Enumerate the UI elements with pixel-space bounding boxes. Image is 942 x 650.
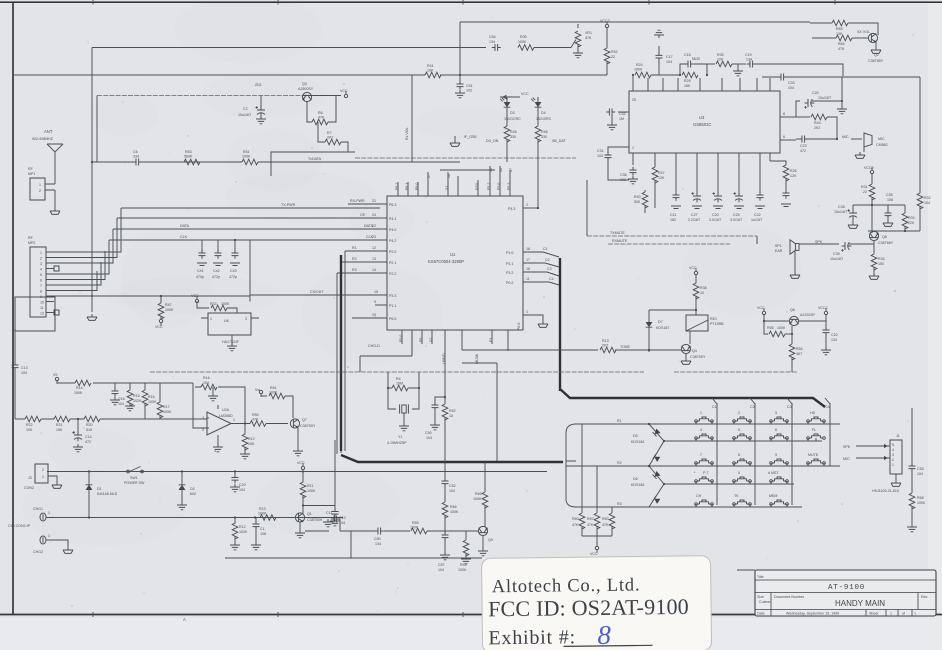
svg-text:134: 134 <box>489 40 495 44</box>
svg-text:104: 104 <box>449 489 455 493</box>
svg-text:100K: 100K <box>634 68 643 72</box>
VCC node keypad <box>595 546 598 552</box>
svg-text:Vw: Vw <box>255 388 260 392</box>
svg-text:1: 1 <box>39 183 41 187</box>
svg-text:P6.1: P6.1 <box>405 183 409 190</box>
svg-text:D7: D7 <box>658 320 663 324</box>
svg-text:R63: R63 <box>836 27 843 31</box>
svg-text:6: 6 <box>775 428 777 432</box>
svg-text:C3875SY: C3875SY <box>690 355 706 359</box>
VCC node right of Q3 <box>344 91 347 97</box>
svg-text:560K: 560K <box>184 155 193 159</box>
resistor R20 <box>84 416 100 422</box>
capacitor C53 right <box>911 408 913 466</box>
svg-text:R13: R13 <box>602 339 609 343</box>
potentiometer VR1 <box>575 31 581 47</box>
svg-text:C4: C4 <box>549 277 554 281</box>
svg-text:C50: C50 <box>374 537 381 541</box>
svg-text:C19: C19 <box>745 53 752 57</box>
svg-text:C1: C1 <box>712 405 717 409</box>
svg-text:2.2/16T: 2.2/16T <box>688 218 701 222</box>
svg-text:4: 4 <box>892 448 894 452</box>
wire bus CE y218 <box>117 217 380 219</box>
svg-text:51K: 51K <box>86 428 93 432</box>
svg-text:2: 2 <box>39 189 41 193</box>
wire bus CLK y240 <box>109 239 380 241</box>
svg-text:50K: 50K <box>634 200 641 204</box>
resistor R26 <box>770 161 786 165</box>
svg-text:Rev: Rev <box>921 595 928 599</box>
sheet frame bottom ruler line <box>0 614 942 616</box>
svg-text:C22: C22 <box>831 333 838 337</box>
svg-text:EAR: EAR <box>775 249 783 253</box>
svg-text:100K: 100K <box>458 568 467 572</box>
svg-text:V9: V9 <box>53 373 57 377</box>
svg-text:R16: R16 <box>148 395 155 399</box>
key MST <box>770 477 789 482</box>
svg-text:VCC: VCC <box>191 294 199 298</box>
svg-text:2: 2 <box>526 203 528 207</box>
wire row y158 <box>355 157 576 159</box>
svg-text:RF: RF <box>28 167 34 171</box>
U1 left pin 22 P4.0 <box>380 228 387 230</box>
svg-text:MUTE: MUTE <box>808 453 819 457</box>
svg-text:47K: 47K <box>585 36 592 40</box>
svg-text:100K: 100K <box>518 40 527 44</box>
keypad row R1 <box>576 423 840 425</box>
key 2 <box>733 417 752 422</box>
LED D3 <box>506 97 508 100</box>
capacitor C22 <box>759 165 761 193</box>
svg-text:P6.3: P6.3 <box>389 203 396 207</box>
resistor R7 <box>318 122 348 152</box>
svg-text:VCC: VCC <box>590 552 598 556</box>
svg-text:ZD1: ZD1 <box>255 83 262 87</box>
svg-text:C2: C2 <box>545 258 550 262</box>
wire row y205 <box>853 204 905 206</box>
svg-text:P6.5: P6.5 <box>389 317 396 321</box>
svg-text:C2: C2 <box>750 405 755 409</box>
svg-text:CH: CH <box>696 494 702 498</box>
resistor R46 <box>537 107 539 126</box>
svg-text:P0.0: P0.0 <box>399 335 403 342</box>
node junction x633 y75 <box>632 74 634 76</box>
svg-text:R68: R68 <box>917 496 924 500</box>
svg-text:TX-PWR: TX-PWR <box>281 203 296 207</box>
svg-text:D3: D3 <box>510 111 515 115</box>
svg-text:P5.2: P5.2 <box>487 183 491 190</box>
node junction x182 <box>181 470 183 472</box>
connector CHG1 <box>40 513 46 521</box>
transistor Q4 <box>681 344 690 353</box>
svg-text:POWER SW: POWER SW <box>124 481 145 485</box>
key 8 <box>733 459 752 464</box>
svg-text:KDS184: KDS184 <box>631 483 644 487</box>
svg-text:Q7: Q7 <box>302 418 307 422</box>
svg-text:R54: R54 <box>796 347 803 351</box>
U1 left pin 12 P2.0 R1 <box>345 250 387 252</box>
svg-text:C50: C50 <box>425 431 432 435</box>
svg-text:37: 37 <box>509 168 513 172</box>
capacitor C38 <box>852 205 854 211</box>
svg-text:5: 5 <box>892 443 894 447</box>
svg-text:C32: C32 <box>619 112 626 116</box>
svg-text:C42: C42 <box>213 269 220 273</box>
svg-text:SB_DAT: SB_DAT <box>552 139 567 143</box>
exhibit underline <box>564 645 653 646</box>
U1 right pin 11 P0.2 C4 <box>523 281 549 283</box>
keypad row R3 <box>576 506 802 508</box>
svg-text:10: 10 <box>700 291 704 295</box>
svg-text:D2: D2 <box>190 487 195 491</box>
resistor R15 <box>129 383 131 390</box>
svg-text:7: 7 <box>700 453 702 457</box>
svg-text:R6: R6 <box>318 111 323 115</box>
svg-text:R4: R4 <box>396 377 401 381</box>
ground under U6 <box>227 343 237 351</box>
svg-text:RX-PWR: RX-PWR <box>350 199 365 203</box>
svg-text:C3: C3 <box>547 267 552 271</box>
title block top border extension <box>737 569 755 571</box>
svg-text:Custom: Custom <box>759 600 771 604</box>
resistor R63t <box>810 22 832 24</box>
svg-text:9: 9 <box>374 300 376 304</box>
key FL <box>807 434 826 439</box>
svg-text:1: 1 <box>526 310 528 314</box>
svg-text:P6.2: P6.2 <box>395 183 399 190</box>
svg-text:CHG-D: CHG-D <box>368 344 380 348</box>
svg-text:P1: P1 <box>489 338 493 342</box>
capacitor C39 <box>841 242 851 252</box>
svg-text:C38T85Y: C38T85Y <box>868 59 884 63</box>
svg-text:P2.2: P2.2 <box>389 272 396 276</box>
U1 left pin 21 P6.3 RX-PWR <box>348 203 387 205</box>
svg-text:A1S025Y: A1S025Y <box>800 313 816 317</box>
svg-text:C33: C33 <box>788 81 795 85</box>
svg-text:14: 14 <box>372 268 376 272</box>
svg-text:104: 104 <box>239 488 245 492</box>
svg-text:R29: R29 <box>684 79 691 83</box>
crystal Y1 <box>388 388 419 409</box>
svg-text:DX_ON: DX_ON <box>486 139 499 143</box>
resistor R53 <box>184 159 200 165</box>
svg-text:100K: 100K <box>242 155 251 159</box>
svg-text:R27: R27 <box>658 171 665 175</box>
svg-text:R57: R57 <box>587 517 594 521</box>
svg-text:CHG2: CHG2 <box>33 550 43 554</box>
wire from frame y330 <box>13 329 15 331</box>
svg-text:R33: R33 <box>210 302 217 306</box>
svg-text:C1: C1 <box>260 527 265 531</box>
svg-text:Q3: Q3 <box>302 82 307 86</box>
svg-text:HD: HD <box>810 411 816 415</box>
key 0 <box>733 477 752 482</box>
svg-text:C17: C17 <box>666 55 673 59</box>
svg-text:47K: 47K <box>602 523 609 527</box>
svg-text:R55: R55 <box>412 521 419 525</box>
resistor R40 <box>644 190 646 192</box>
keypad column C3 <box>791 403 793 505</box>
capacitor C10 <box>334 440 336 512</box>
svg-text:902-928MHZ: 902-928MHZ <box>32 137 54 141</box>
U1 bottom pin stubs <box>402 330 508 356</box>
resistor R22 <box>25 416 41 422</box>
svg-text:10M: 10M <box>396 382 403 386</box>
svg-text:of: of <box>902 612 905 616</box>
title block column lines <box>771 593 918 617</box>
svg-text:27: 27 <box>427 174 431 178</box>
wire row y170 <box>440 169 495 171</box>
svg-text:MEM: MEM <box>769 494 777 498</box>
svg-text:C3: C3 <box>787 405 792 409</box>
svg-text:470p: 470p <box>196 275 204 279</box>
svg-text:104: 104 <box>438 568 444 572</box>
svg-text:4K7: 4K7 <box>796 352 802 356</box>
svg-text:GS8501C: GS8501C <box>693 122 711 127</box>
svg-text:P6.0: P6.0 <box>415 183 419 190</box>
svg-text:150: 150 <box>878 262 884 266</box>
svg-text:1: 1 <box>890 612 892 616</box>
resistor R65 <box>484 462 486 492</box>
key TK <box>733 500 752 505</box>
resistor R31 <box>871 173 873 184</box>
svg-text:P4.1: P4.1 <box>389 217 396 221</box>
wire TONE to Q4 base <box>662 349 681 351</box>
wire mute row RXMUTE <box>608 243 730 245</box>
svg-text:10K: 10K <box>26 428 33 432</box>
svg-text:104: 104 <box>21 371 27 375</box>
capacitor C31 <box>608 147 629 155</box>
svg-text:C11: C11 <box>670 213 676 217</box>
op-amp U6 box <box>208 313 251 335</box>
wire MP2 pin12 stub <box>46 312 54 314</box>
svg-text:C29: C29 <box>239 483 246 487</box>
U3 right pin 8 <box>780 116 796 118</box>
svg-text:102K: 102K <box>133 399 142 403</box>
svg-text:5630: 5630 <box>692 57 700 61</box>
svg-text:4: 4 <box>40 268 42 272</box>
U1 right pin 1 ground <box>523 315 543 321</box>
VCC2 node cap <box>824 308 827 314</box>
resistor R11 <box>302 472 304 483</box>
svg-text:C41: C41 <box>197 269 204 273</box>
capacitor C50b <box>375 528 384 535</box>
svg-text:11: 11 <box>526 277 530 281</box>
U1 left pin 14 P2.2 R3 <box>337 272 387 274</box>
keypad row R2 <box>576 465 840 467</box>
svg-text:C14: C14 <box>85 435 92 439</box>
svg-text:C35: C35 <box>886 193 893 197</box>
svg-text:2K2: 2K2 <box>327 136 333 140</box>
connector J1 <box>890 440 902 474</box>
diode D2 zener <box>181 472 183 488</box>
keypad mid row2 <box>664 483 794 485</box>
VCC node Q6 <box>762 308 765 314</box>
svg-text:D4: D4 <box>541 111 546 115</box>
svg-text:HANDY MAIN: HANDY MAIN <box>835 599 885 608</box>
wire row y383 <box>57 382 193 384</box>
transistor Q1 <box>295 513 304 522</box>
svg-text:R33: R33 <box>908 216 915 220</box>
ground at J3 pin1 <box>48 476 57 482</box>
sheet frame bottom ticks <box>93 612 649 617</box>
svg-text:P4.3: P4.3 <box>508 207 515 211</box>
U1 top pin stubs <box>398 166 510 196</box>
svg-text:10u/16T: 10u/16T <box>238 113 252 117</box>
capacitor bypass near opamp <box>212 387 214 393</box>
sheet frame left border <box>12 2 14 614</box>
capacitor C51 <box>457 81 464 90</box>
svg-text:5: 5 <box>40 273 42 277</box>
svg-text:23: 23 <box>372 235 376 239</box>
svg-text:RE1: RE1 <box>710 317 717 321</box>
svg-text:C54: C54 <box>489 35 496 39</box>
svg-text:29: 29 <box>372 313 376 317</box>
svg-text:VCC: VCC <box>297 461 305 465</box>
svg-text:22: 22 <box>863 190 867 194</box>
svg-text:100K: 100K <box>777 326 786 330</box>
svg-text:C22: C22 <box>754 213 761 217</box>
capacitor C20p top right <box>796 101 842 117</box>
wire MP2 pin1 fan <box>46 208 121 252</box>
node junction x161 y301 <box>160 295 162 297</box>
svg-text:R63: R63 <box>602 517 609 521</box>
svg-text:C11: C11 <box>326 511 332 515</box>
svg-text:Y1: Y1 <box>398 435 402 439</box>
svg-text:9: 9 <box>775 453 777 457</box>
svg-text:3: 3 <box>245 317 247 321</box>
ground under MP1 <box>50 208 60 214</box>
svg-text:R45: R45 <box>510 130 517 134</box>
resistor R50 <box>250 421 266 427</box>
capacitor C6 <box>133 159 142 166</box>
svg-text:1: 1 <box>892 463 894 467</box>
wire vertical x97 <box>96 96 98 163</box>
keypad column C1 <box>716 403 718 505</box>
svg-text:R15: R15 <box>133 394 140 398</box>
svg-text:C25: C25 <box>733 213 740 217</box>
svg-text:2: 2 <box>738 411 740 415</box>
key CH <box>695 500 714 505</box>
svg-text:104: 104 <box>426 436 432 440</box>
resistor R33r <box>904 205 906 213</box>
transistor Q6 <box>789 316 798 325</box>
svg-text:22: 22 <box>372 224 376 228</box>
svg-text:C38750H: C38750H <box>307 518 323 522</box>
resistor R33 <box>197 301 209 308</box>
svg-text:R16: R16 <box>203 376 210 380</box>
svg-text:KS57C0504-3290P: KS57C0504-3290P <box>428 259 464 264</box>
resistor R66 <box>444 484 446 502</box>
svg-text:MIC: MIC <box>842 135 849 139</box>
svg-text:R55: R55 <box>767 326 774 330</box>
wire bus DATA y229 <box>113 228 380 230</box>
svg-text:R51: R51 <box>270 386 277 390</box>
svg-text:8: 8 <box>783 112 785 116</box>
U1 right pin 18 P3.0 C1 <box>523 251 543 253</box>
svg-text:6: 6 <box>783 135 785 139</box>
title block outer box <box>755 570 936 616</box>
U3 bottom pin stubs <box>633 153 770 165</box>
capacitor C42 <box>217 240 219 253</box>
wire right vertical x920 <box>919 77 921 193</box>
wire VCC to Q6 <box>764 314 826 321</box>
VCC node relay <box>694 268 697 274</box>
transistor Q9 <box>478 526 487 535</box>
node junction x89 <box>88 470 90 472</box>
capacitor C43 <box>234 240 236 253</box>
resistor R17 <box>159 383 161 402</box>
resistor R52t <box>606 27 608 48</box>
resistor R34 <box>873 241 875 254</box>
keypad mid row1 <box>664 440 822 442</box>
keypad column C4 <box>829 403 831 466</box>
svg-text:VCC: VCC <box>155 325 163 329</box>
svg-text:R12: R12 <box>248 437 255 441</box>
resistor R13tone <box>600 347 616 353</box>
svg-text:2: 2 <box>202 428 204 432</box>
svg-text:1: 1 <box>914 612 916 616</box>
ground under Q1 <box>299 522 301 530</box>
capacitor C27 <box>696 165 698 193</box>
key 5 <box>733 434 752 439</box>
svg-text:12: 12 <box>40 312 44 316</box>
svg-text:472: 472 <box>85 440 91 444</box>
ground under J1 <box>895 474 897 480</box>
svg-text:104: 104 <box>203 381 209 385</box>
U1 left pin 29 P6.5 <box>352 317 387 319</box>
svg-text:MIC: MIC <box>843 457 850 461</box>
wire bus y22 <box>460 21 810 23</box>
svg-text:C4: C4 <box>825 405 830 409</box>
U1 left pin 9 P1.1 <box>375 304 387 306</box>
svg-text:1: 1 <box>48 511 50 515</box>
svg-text:C3875SY: C3875SY <box>300 424 316 428</box>
node junction CLK x235 <box>234 239 236 241</box>
resistor R60 pull <box>581 424 583 513</box>
svg-text:Q6: Q6 <box>790 308 795 312</box>
bus C1-C4 bundle to keypad <box>543 252 559 285</box>
svg-text:X2: X2 <box>429 338 433 342</box>
svg-text:15K: 15K <box>56 428 63 432</box>
wire to C10 <box>303 505 335 507</box>
svg-text:Wednesday, September 15, 1999: Wednesday, September 15, 1999 <box>786 612 839 616</box>
bus R1R2R3 bundle to keypad <box>337 251 345 454</box>
svg-text:RF: RF <box>28 236 34 240</box>
svg-text:R26: R26 <box>790 169 797 173</box>
svg-text:3.0/16T: 3.0/16T <box>730 218 743 222</box>
svg-text:A1500SY: A1500SY <box>298 87 314 91</box>
wire emitter row y531 <box>340 530 478 532</box>
svg-text:CM562: CM562 <box>876 143 888 147</box>
svg-text:P5.3: P5.3 <box>507 183 511 190</box>
wire main row y419 <box>15 418 207 420</box>
keypad row bracket <box>566 424 576 507</box>
svg-text:8: 8 <box>738 453 740 457</box>
svg-text:20: 20 <box>632 98 636 102</box>
svg-text:R20: R20 <box>86 423 93 427</box>
svg-text:100K: 100K <box>307 489 316 493</box>
svg-text:C31: C31 <box>597 149 604 153</box>
svg-text:R14: R14 <box>76 386 83 390</box>
svg-text:4.19MHZSP: 4.19MHZSP <box>387 441 407 445</box>
svg-text:R65: R65 <box>475 492 482 496</box>
svg-text:U3: U3 <box>699 115 705 120</box>
svg-text:P4.0: P4.0 <box>389 228 396 232</box>
svg-text:17: 17 <box>526 258 530 262</box>
svg-text:IF_OS6: IF_OS6 <box>464 135 476 139</box>
svg-text:104: 104 <box>118 402 124 406</box>
